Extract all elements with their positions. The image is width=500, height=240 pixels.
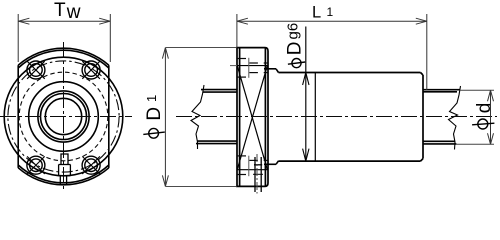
svg-text:D: D <box>285 41 306 55</box>
svg-text:L: L <box>312 4 321 22</box>
svg-text:w: w <box>66 2 81 23</box>
svg-text:1: 1 <box>327 5 334 19</box>
svg-text:1: 1 <box>144 95 159 102</box>
svg-text:g6: g6 <box>285 23 302 40</box>
svg-text:T: T <box>54 0 66 21</box>
svg-text:d: d <box>474 103 495 114</box>
svg-text:D: D <box>144 107 165 121</box>
